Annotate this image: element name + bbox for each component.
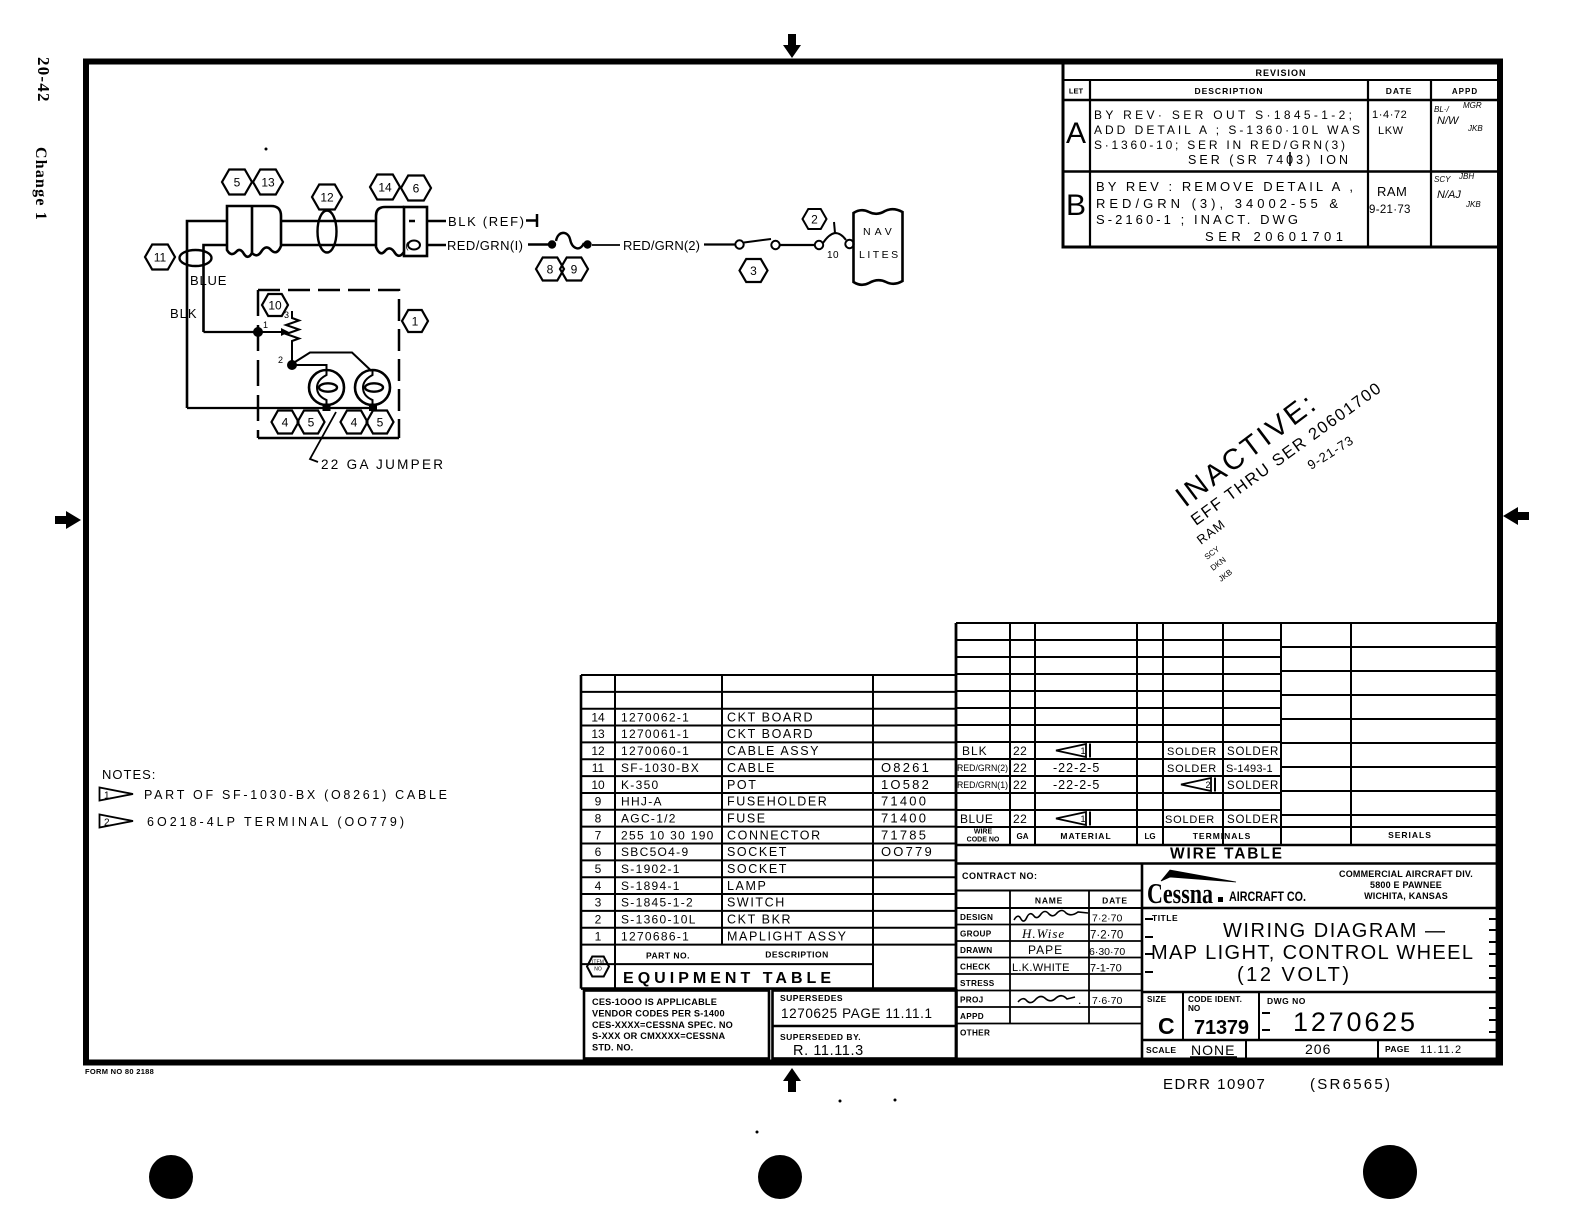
svg-text:SOLDER: SOLDER (1167, 746, 1217, 758)
svg-text:CKT BOARD: CKT BOARD (727, 710, 814, 724)
design signature (1014, 911, 1088, 922)
svg-text:AIRCRAFT CO.: AIRCRAFT CO. (1229, 889, 1306, 904)
svg-text:2: 2 (1206, 780, 1211, 790)
pin mark bottom oval (408, 241, 420, 250)
svg-text:1270060-1: 1270060-1 (621, 744, 690, 758)
wire bus bottom run (281, 244, 376, 247)
svg-text:10: 10 (591, 778, 605, 792)
callout hex 4 (272, 411, 299, 434)
BLK(REF) terminator (526, 219, 536, 222)
svg-text:S-1902-1: S-1902-1 (621, 862, 681, 876)
svg-text:1270061-1: 1270061-1 (621, 727, 690, 741)
svg-text:JKB: JKB (1465, 200, 1481, 209)
svg-text:FUSE: FUSE (727, 811, 767, 825)
svg-text:71379: 71379 (1194, 1017, 1249, 1039)
callout hex 8 (536, 258, 564, 281)
svg-text:1: 1 (1081, 746, 1086, 756)
svg-text:NAME: NAME (1035, 896, 1063, 906)
svg-text:SOLDER: SOLDER (1227, 746, 1279, 758)
size/code/dwg row (1142, 991, 1497, 994)
svg-text:LET: LET (1069, 87, 1084, 96)
svg-text:8: 8 (547, 262, 554, 276)
callout hex 12 (312, 185, 342, 210)
svg-text:Change 1: Change 1 (32, 147, 49, 221)
svg-text:10: 10 (827, 250, 839, 261)
scale row (1142, 1039, 1497, 1042)
switch item 3 (735, 240, 743, 248)
svg-text:DRAWN: DRAWN (960, 946, 992, 955)
svg-text:APPD: APPD (960, 1012, 984, 1021)
svg-text:NONE: NONE (1191, 1042, 1235, 1058)
svg-text:20-42: 20-42 (34, 57, 53, 103)
svg-text:-22-2-5: -22-2-5 (1053, 761, 1100, 775)
svg-text:1270625 PAGE 11.11.1: 1270625 PAGE 11.11.1 (781, 1006, 933, 1021)
svg-text:O8261: O8261 (881, 760, 931, 775)
svg-text:SOLDER: SOLDER (1227, 780, 1279, 792)
pin mark top (409, 220, 415, 223)
item no hex symbol (587, 957, 609, 977)
supersedes box (773, 991, 957, 1059)
svg-text:SIZE: SIZE (1147, 995, 1167, 1004)
svg-text:BLK: BLK (962, 744, 988, 758)
svg-text:8: 8 (595, 811, 602, 825)
svg-text:CONNECTOR: CONNECTOR (727, 828, 822, 842)
svg-text:1: 1 (1081, 814, 1086, 824)
svg-text:CES-XXXX=CESSNA SPEC. NO: CES-XXXX=CESSNA SPEC. NO (592, 1020, 733, 1030)
svg-text:EQUIPMENT TABLE: EQUIPMENT TABLE (623, 970, 831, 987)
svg-text:6: 6 (595, 845, 602, 859)
connector item 5/13 right half (252, 206, 281, 255)
svg-text:WIRING DIAGRAM —: WIRING DIAGRAM — (1223, 920, 1445, 942)
svg-text:3: 3 (284, 310, 289, 320)
fold dashes (1145, 918, 1153, 920)
svg-text:BLUE: BLUE (960, 812, 993, 826)
svg-text:12: 12 (320, 190, 334, 204)
svg-text:22: 22 (1013, 761, 1027, 775)
svg-text:5: 5 (377, 415, 384, 429)
svg-text:22: 22 (1013, 744, 1027, 758)
wire into switch (704, 243, 735, 245)
svg-text:CODE NO: CODE NO (967, 837, 1000, 844)
svg-text:11: 11 (592, 761, 605, 775)
svg-text:TERMINALS: TERMINALS (1193, 831, 1252, 841)
svg-text:Cessna: Cessna (1147, 879, 1213, 910)
svg-text:SCY: SCY (1434, 175, 1451, 184)
svg-text:1.: 1. (104, 791, 112, 802)
punch hole left (149, 1155, 193, 1199)
svg-text:DESIGN: DESIGN (960, 913, 993, 922)
svg-text:SWITCH: SWITCH (727, 896, 786, 910)
svg-text:N/W: N/W (1437, 115, 1460, 127)
lamp item 4 right (355, 370, 390, 405)
note flag 1 (100, 788, 134, 801)
svg-text:9-21·73: 9-21·73 (1369, 204, 1411, 216)
svg-text:7-1-70: 7-1-70 (1090, 963, 1122, 975)
svg-text:DESCRIPTION: DESCRIPTION (1194, 86, 1263, 96)
svg-text:PART OF SF-1030-BX (O8261): PART OF SF-1030-BX (O8261) CABLE (144, 788, 447, 802)
svg-text:C: C (1158, 1013, 1175, 1039)
svg-text:B: B (1066, 189, 1086, 222)
svg-text:DWG NO: DWG NO (1267, 996, 1306, 1006)
svg-text:2: 2 (278, 355, 283, 365)
callout hex 1 (402, 310, 428, 332)
svg-text:PROJ: PROJ (960, 996, 984, 1005)
svg-text:MGR: MGR (1463, 101, 1482, 110)
lamp socket terminal left (323, 404, 331, 412)
svg-text:RAM: RAM (1377, 184, 1407, 199)
svg-text:12: 12 (591, 744, 605, 758)
svg-text:JBH: JBH (1458, 172, 1474, 181)
svg-text:5: 5 (308, 415, 315, 429)
svg-text:SCALE: SCALE (1146, 1045, 1176, 1055)
revision table (1063, 63, 1499, 247)
svg-text:CKT BOARD: CKT BOARD (727, 727, 814, 741)
svg-text:S-1493-1: S-1493-1 (1226, 763, 1273, 775)
callout hex 11 (145, 245, 175, 270)
svg-text:SUPERSEDES: SUPERSEDES (780, 993, 843, 1003)
svg-text:3: 3 (595, 896, 602, 910)
callout hex 5b (298, 411, 325, 434)
wire BLK top-left L-run (187, 221, 227, 408)
svg-text:NO: NO (1188, 1004, 1201, 1013)
svg-text:7·2·70: 7·2·70 (1090, 930, 1123, 942)
svg-text:71400: 71400 (881, 810, 928, 825)
svg-text:FUSEHOLDER: FUSEHOLDER (727, 795, 828, 809)
svg-text:R. 11.11.3: R. 11.11.3 (793, 1043, 864, 1059)
svg-text:EDRR 10907: EDRR 10907 (1163, 1076, 1266, 1093)
svg-text:K-350: K-350 (621, 778, 660, 792)
svg-text:4: 4 (282, 415, 289, 429)
svg-text:7·6·70: 7·6·70 (1092, 995, 1123, 1007)
svg-text:STRESS: STRESS (960, 979, 995, 988)
svg-text:S·1360-10; SER IN RED/GRN(3): S·1360-10; SER IN RED/GRN(3) (1094, 138, 1345, 152)
svg-text:BLK (REF): BLK (REF) (448, 214, 524, 229)
svg-text:(12 VOLT): (12 VOLT) (1237, 964, 1349, 986)
svg-text:CABLE ASSY: CABLE ASSY (727, 744, 820, 758)
svg-text:ITEM: ITEM (592, 960, 604, 966)
title block (955, 864, 958, 1060)
svg-text:BLK: BLK (170, 306, 198, 321)
svg-text:S-1894-1: S-1894-1 (621, 879, 681, 893)
callout hex 10 (262, 294, 288, 316)
drawing border frame (86, 62, 1500, 1063)
svg-text:1270625: 1270625 (1293, 1007, 1415, 1037)
svg-text:POT: POT (727, 778, 758, 792)
svg-text:GA: GA (1017, 832, 1029, 841)
svg-text:10: 10 (268, 298, 282, 312)
svg-text:2: 2 (811, 212, 818, 226)
punch hole right (1363, 1145, 1417, 1199)
svg-text:OO779: OO779 (881, 844, 934, 859)
svg-text:MAP LIGHT, CONTROL WHEEL: MAP LIGHT, CONTROL WHEEL (1151, 942, 1473, 964)
svg-text:11.11.2: 11.11.2 (1420, 1044, 1462, 1056)
svg-text:CKT BKR: CKT BKR (727, 913, 792, 927)
svg-text:.: . (1078, 993, 1081, 1007)
svg-text:L.K.WHITE: L.K.WHITE (1012, 962, 1070, 974)
svg-text:MAPLIGHT ASSY: MAPLIGHT ASSY (727, 929, 848, 943)
svg-text:SUPERSEDED BY.: SUPERSEDED BY. (780, 1032, 861, 1042)
callout hex 13 (253, 170, 283, 195)
svg-text:1: 1 (595, 929, 602, 943)
svg-text:NOTES:: NOTES: (102, 767, 156, 782)
svg-text:RED/GRN(1): RED/GRN(1) (957, 780, 1008, 790)
svg-text:1: 1 (412, 314, 419, 328)
bottom registration arrow (783, 1068, 801, 1092)
wire BLUE left L-run (204, 245, 228, 332)
svg-text:TITLE: TITLE (1152, 913, 1178, 923)
wire RED/GRN(1) stub (427, 244, 446, 247)
svg-text:(SR6565): (SR6565) (1310, 1076, 1390, 1093)
svg-text:DESCRIPTION: DESCRIPTION (765, 950, 829, 960)
svg-text:SOLDER: SOLDER (1165, 814, 1215, 826)
NAV LITES box (854, 209, 903, 285)
connector item 5/13 left half (227, 206, 252, 257)
svg-text:14: 14 (591, 710, 605, 724)
wiper arrow (262, 331, 281, 333)
wire bus top run (281, 220, 376, 223)
wire BLUE into pot junction (204, 331, 259, 333)
svg-text:WIRE TABLE: WIRE TABLE (1170, 846, 1282, 863)
svg-text:PAPE: PAPE (1028, 943, 1063, 957)
svg-text:1270686-1: 1270686-1 (621, 929, 690, 943)
svg-text:LKW: LKW (1378, 125, 1404, 137)
note flag 2 (100, 815, 134, 828)
top registration arrow (783, 34, 801, 58)
equipment table (581, 674, 956, 676)
svg-text:SF-1030-BX: SF-1030-BX (621, 761, 700, 775)
stray specks (265, 148, 268, 151)
svg-text:LG: LG (1144, 832, 1155, 841)
svg-text:14: 14 (378, 180, 392, 194)
svg-text:SOCKET: SOCKET (727, 862, 788, 876)
svg-text:11: 11 (154, 250, 167, 264)
cessna logo area (1142, 907, 1497, 910)
lamp socket terminal right (369, 404, 377, 412)
svg-text:1: 1 (263, 320, 268, 330)
svg-text:-22-2-5: -22-2-5 (1053, 778, 1100, 792)
svg-text:13: 13 (261, 175, 275, 189)
svg-text:APPD: APPD (1452, 87, 1478, 96)
wire table (956, 622, 1281, 624)
svg-text:22: 22 (1013, 778, 1027, 792)
svg-text:S-1845-1-2: S-1845-1-2 (621, 896, 694, 910)
svg-text:S-1360-10L: S-1360-10L (621, 913, 697, 927)
fuse item 8/9 (548, 240, 556, 248)
svg-text:CONTRACT NO:: CONTRACT NO: (962, 871, 1038, 881)
svg-text:5: 5 (595, 862, 602, 876)
right registration arrow (1503, 507, 1529, 525)
CES note box (584, 991, 769, 1059)
svg-text:4: 4 (351, 415, 358, 429)
svg-text:9: 9 (571, 262, 578, 276)
callout hex 9 (560, 258, 588, 281)
svg-text:NO: NO (594, 967, 602, 973)
callout hex 6 (401, 176, 431, 201)
svg-text:COMMERCIAL AIRCRAFT DIV.: COMMERCIAL AIRCRAFT DIV. (1339, 869, 1473, 879)
connector item 14/6 left half (376, 207, 404, 256)
punch hole center (758, 1155, 802, 1199)
svg-text:SBC5O4-9: SBC5O4-9 (621, 845, 689, 859)
lamp item 4 left (309, 370, 344, 405)
cable marker oval item 11 (180, 250, 212, 266)
callout hex 2 (803, 209, 827, 229)
proj signature (1018, 996, 1075, 1003)
svg-text:N/AJ: N/AJ (1437, 189, 1461, 201)
svg-text:CHECK: CHECK (960, 963, 991, 972)
svg-text:5800 E PAWNEE: 5800 E PAWNEE (1370, 880, 1442, 890)
svg-text:REVISION: REVISION (1255, 68, 1306, 78)
svg-text:MATERIAL: MATERIAL (1060, 831, 1111, 841)
svg-text:4: 4 (595, 879, 602, 893)
svg-text:13: 13 (591, 727, 605, 741)
svg-text:9: 9 (595, 795, 602, 809)
svg-text:CES-1OOO IS APPLICABLE: CES-1OOO IS APPLICABLE (592, 997, 717, 1007)
svg-text:H.Wise: H.Wise (1021, 926, 1065, 941)
svg-text:CABLE: CABLE (727, 761, 776, 775)
svg-text:RED/GRN(2): RED/GRN(2) (957, 763, 1008, 773)
svg-text:NAV: NAV (863, 226, 896, 238)
svg-text:SOLDER: SOLDER (1167, 763, 1217, 775)
svg-text:(: ( (406, 241, 409, 251)
wire terminal2 to right lamp (295, 353, 372, 372)
wire BLK bottom run + 22GA jumper (187, 407, 373, 409)
wire BLK(REF) stub (427, 220, 446, 223)
svg-text:BLUE: BLUE (190, 273, 227, 288)
svg-text:RED/GRN(2): RED/GRN(2) (623, 238, 700, 253)
svg-text:6: 6 (413, 181, 420, 195)
svg-text:HHJ-A: HHJ-A (621, 795, 663, 809)
callout hex 5 (222, 170, 252, 195)
svg-text:1O582: 1O582 (881, 777, 931, 792)
svg-text:1·4·72: 1·4·72 (1372, 109, 1407, 121)
maplight assy dashed box item 1 (258, 290, 399, 438)
svg-text:JKB: JKB (1467, 124, 1483, 133)
svg-text:S-2160-1 ; INACT. DWG: S-2160-1 ; INACT. DWG (1096, 212, 1298, 227)
svg-text:1270062-1: 1270062-1 (621, 710, 690, 724)
svg-text:S-XXX OR CMXXXX=CESSNA: S-XXX OR CMXXXX=CESSNA (592, 1031, 725, 1041)
node terminal 1 junction (253, 327, 263, 337)
inactive stamp handwritten (1170, 379, 1386, 584)
svg-text:OTHER: OTHER (960, 1029, 990, 1038)
svg-text:A: A (1066, 117, 1086, 150)
svg-text:255 10 30 190: 255 10 30 190 (621, 828, 715, 842)
svg-text:71400: 71400 (881, 794, 928, 809)
svg-text:6·30·70: 6·30·70 (1089, 946, 1125, 958)
svg-text:7: 7 (595, 828, 602, 842)
svg-text:5: 5 (234, 175, 241, 189)
svg-text:7·2·70: 7·2·70 (1092, 913, 1123, 925)
svg-text:FORM NO 80 2188: FORM NO 80 2188 (85, 1067, 154, 1076)
callout hex 4b (341, 411, 368, 434)
svg-text:BL·/: BL·/ (1434, 105, 1449, 114)
connector item 14/6 right half receptacle (404, 207, 427, 256)
svg-text:206: 206 (1305, 1041, 1331, 1057)
node terminal 2 (287, 360, 297, 370)
svg-text:AGC-1/2: AGC-1/2 (621, 811, 677, 825)
cessna swoosh (1161, 870, 1236, 882)
svg-text:DATE: DATE (1102, 896, 1128, 906)
svg-text:VENDOR CODES PER S-1400: VENDOR CODES PER S-1400 (592, 1008, 725, 1018)
svg-text:3: 3 (750, 264, 757, 278)
svg-text:SOCKET: SOCKET (727, 845, 788, 859)
svg-text:SERIALS: SERIALS (1388, 830, 1432, 840)
svg-text:RED/GRN(I): RED/GRN(I) (447, 238, 523, 253)
svg-text:2.: 2. (104, 818, 112, 829)
wire between switch and nav disconnect (780, 244, 814, 246)
jumper leader line (310, 412, 336, 462)
svg-text:PART NO.: PART NO. (646, 951, 690, 961)
svg-text:LITES: LITES (859, 249, 901, 261)
svg-text:71785: 71785 (881, 827, 928, 842)
svg-text:SOLDER: SOLDER (1227, 814, 1279, 826)
svg-text:2: 2 (595, 913, 602, 927)
callout hex 3 (740, 259, 768, 282)
svg-text:GROUP: GROUP (960, 930, 992, 939)
svg-text:CODE IDENT.: CODE IDENT. (1188, 995, 1242, 1004)
left registration arrow (55, 511, 81, 529)
svg-text:STD. NO.: STD. NO. (592, 1043, 633, 1053)
callout hex 14 (370, 175, 400, 200)
wire to RED/GRN(2) label (592, 244, 620, 246)
disconnect arc to NAV LITES (823, 233, 846, 243)
callout hex 5c (367, 411, 394, 434)
svg-text:PAGE: PAGE (1385, 1044, 1410, 1054)
svg-text:LAMP: LAMP (727, 879, 767, 893)
svg-text:DATE: DATE (1386, 86, 1413, 96)
wire terminal2 to left lamp (296, 365, 327, 370)
cable marker oval item 12 (318, 211, 337, 253)
svg-text:22: 22 (1013, 812, 1027, 826)
svg-text:WICHITA, KANSAS: WICHITA, KANSAS (1364, 891, 1448, 901)
svg-text:WIRE: WIRE (974, 829, 993, 836)
